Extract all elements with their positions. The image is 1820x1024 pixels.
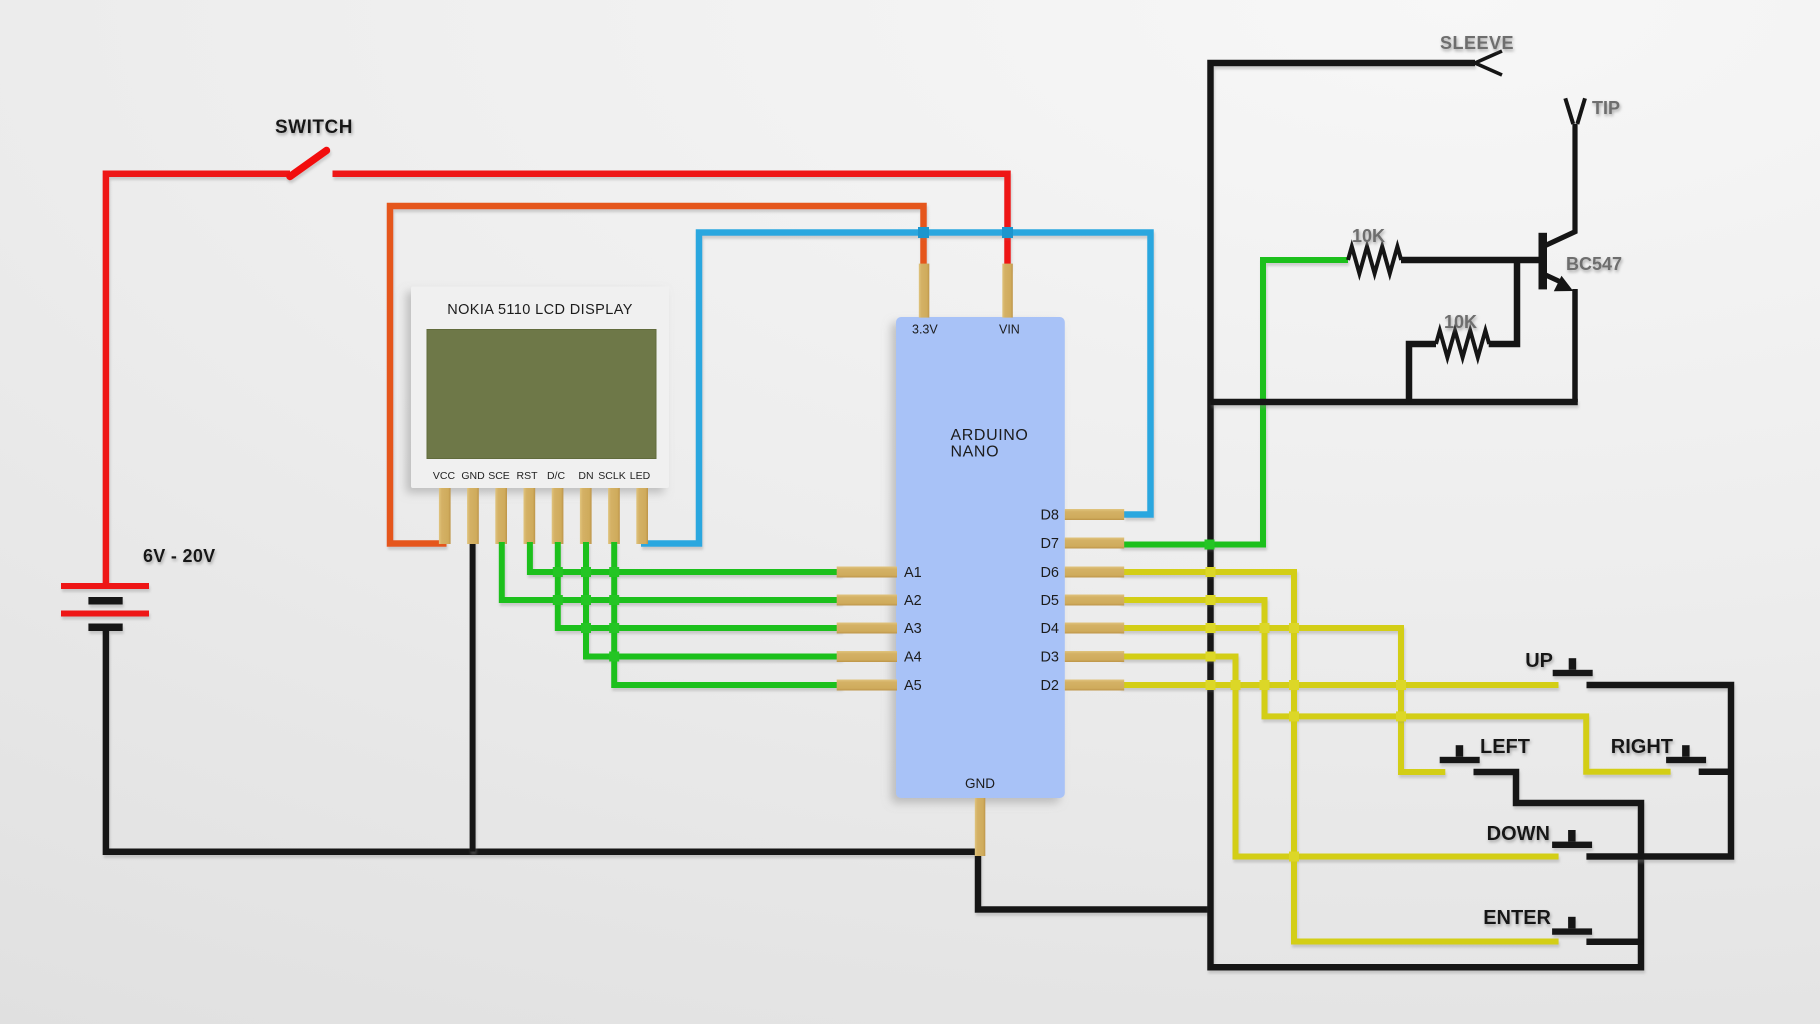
- svg-text:D/C: D/C: [547, 470, 566, 482]
- junction yellow D3 row over main vertical: [1206, 652, 1216, 662]
- nokia display module body: [411, 287, 669, 489]
- svg-text:UP: UP: [1525, 650, 1553, 672]
- svg-text:D8: D8: [1040, 508, 1059, 524]
- svg-text:GND: GND: [461, 470, 485, 482]
- display pins VCC GND SCE RST D/C DN SCLK LED: [439, 488, 648, 544]
- wire yellow D4 to LEFT button: [1120, 628, 1445, 772]
- svg-text:BC547: BC547: [1566, 254, 1622, 274]
- svg-text:A5: A5: [904, 678, 922, 694]
- arduino pins A1-A5: [837, 567, 897, 691]
- junction yellow D6 row over main vertical: [1206, 567, 1216, 577]
- svg-text:LEFT: LEFT: [1480, 736, 1530, 758]
- wire yellow D2 to UP button: [1120, 682, 1559, 688]
- wire black transistor ground rail: [1211, 399, 1578, 406]
- svg-text:D7: D7: [1040, 536, 1059, 552]
- wire black RIGHT contact: [1699, 769, 1731, 776]
- svg-text:10K: 10K: [1352, 226, 1385, 246]
- svg-text:A3: A3: [904, 621, 922, 637]
- pushbutton LEFT symbol: [1440, 745, 1480, 763]
- junction green A2 row x SCLK vertical: [609, 595, 619, 605]
- battery BT1 negative plate: [88, 597, 122, 605]
- wire green DN to A4: [586, 542, 842, 657]
- svg-text:RST: RST: [517, 470, 539, 482]
- transistor Q1 BC547 base bar: [1539, 233, 1548, 290]
- junction green A3 row x SCLK vertical: [609, 623, 619, 633]
- junction yellow D4 row x D5 vertical: [1260, 623, 1270, 633]
- svg-text:A2: A2: [904, 593, 922, 609]
- svg-text:D4: D4: [1040, 621, 1059, 637]
- svg-text:ARDUINO: ARDUINO: [951, 427, 1029, 444]
- junction yellow DOWN row x D6 vertical: [1289, 852, 1299, 862]
- arduino pin GND: [975, 798, 986, 856]
- junction green A1 row x D/C vertical: [553, 567, 563, 577]
- display pin labels: [433, 470, 651, 482]
- arduino nano module body: [896, 317, 1065, 798]
- svg-text:D3: D3: [1040, 650, 1059, 666]
- pushbutton DOWN symbol: [1552, 830, 1592, 848]
- transistor Q1 collector line to TIP: [1545, 124, 1575, 246]
- pushbutton ENTER symbol: [1552, 917, 1592, 935]
- wire orange VCC to 3.3V: [390, 206, 924, 544]
- svg-text:GND: GND: [965, 776, 995, 791]
- junction green A4 row x SCLK vertical: [609, 652, 619, 662]
- wire black main ground net: sleeve rail, main vertical, bottom rail, to LEFT button: [1211, 63, 1642, 967]
- svg-text:DN: DN: [578, 470, 593, 482]
- junction yellow D2 row x D5 vertical: [1260, 680, 1270, 690]
- arduino pin VIN: [1002, 264, 1013, 318]
- svg-text:6V - 20V: 6V - 20V: [143, 546, 215, 566]
- svg-text:D5: D5: [1040, 593, 1059, 609]
- junction yellow D4 row x D6 vertical: [1289, 623, 1299, 633]
- jack tip fork: [1565, 98, 1585, 124]
- wire black battery negative to ground rail: [106, 631, 1211, 910]
- svg-text:TIP: TIP: [1592, 98, 1620, 118]
- resistor R1 10K zigzag: [1348, 247, 1401, 274]
- svg-text:RIGHT: RIGHT: [1611, 736, 1673, 758]
- wire black display GND down: [470, 540, 476, 852]
- arduino pins D8-D2: [1065, 509, 1124, 691]
- junction yellow D5 row over main vertical: [1206, 595, 1216, 605]
- wire black base to R2 right lead: [1489, 260, 1517, 344]
- junction green A2 row x D/C vertical: [553, 595, 563, 605]
- wire green SCLK to A5: [614, 542, 842, 685]
- svg-text:SCLK: SCLK: [598, 470, 625, 482]
- junction yellow D2 row x D3 vertical: [1231, 680, 1241, 690]
- junction yellow D2 row x D4 vertical: [1396, 680, 1406, 690]
- svg-text:NANO: NANO: [951, 444, 1000, 461]
- wire black R2 left lead to ground rail: [1409, 344, 1436, 402]
- wire blue LED to D8: [641, 233, 1151, 544]
- battery BT1 negative plate 2: [88, 624, 122, 632]
- svg-text:VCC: VCC: [433, 470, 456, 482]
- svg-text:DOWN: DOWN: [1487, 823, 1550, 845]
- wire yellow D6 to ENTER button: [1120, 572, 1559, 942]
- junction blue over orange: [918, 227, 929, 238]
- svg-text:D2: D2: [1040, 678, 1059, 694]
- junction yellow D2 row x D6 vertical: [1289, 680, 1299, 690]
- svg-text:A4: A4: [904, 650, 922, 666]
- labels D8-D2: [1040, 508, 1059, 695]
- wire black ENTER contact: [1586, 939, 1644, 946]
- svg-text:SWITCH: SWITCH: [275, 117, 353, 138]
- svg-text:VIN: VIN: [999, 323, 1020, 337]
- svg-text:SCE: SCE: [488, 470, 510, 482]
- junction yellow D4 row over main vertical: [1206, 623, 1216, 633]
- svg-text:D6: D6: [1040, 565, 1059, 581]
- junction green A1 row x SCLK vertical: [609, 567, 619, 577]
- svg-text:LED: LED: [630, 470, 651, 482]
- battery BT1 positive plate: [61, 583, 149, 589]
- svg-text:10K: 10K: [1444, 312, 1477, 332]
- wire green D/C to A3: [558, 542, 842, 628]
- jack sleeve fork: [1475, 51, 1502, 75]
- junction green A1 row x DN vertical: [581, 567, 591, 577]
- transistor Q1 emitter line with arrow: [1545, 275, 1564, 284]
- junction yellow D2 row over main vertical: [1206, 680, 1216, 690]
- wire yellow D5 to RIGHT button: [1120, 600, 1671, 772]
- junction yellow RIGHT row x D6 vertical: [1289, 711, 1299, 721]
- arduino pin 3.3V: [919, 264, 930, 318]
- wire black UP right contact to vertical and DOWN contact: [1586, 685, 1731, 857]
- junction yellow RIGHT row x D4 vertical: [1396, 711, 1406, 721]
- svg-text:A1: A1: [904, 565, 922, 581]
- nokia display screen: [427, 330, 656, 459]
- resistor R2 10K zigzag: [1436, 331, 1489, 358]
- wire green RST to A1: [530, 542, 842, 572]
- pushbutton UP symbol: [1553, 658, 1593, 676]
- svg-text:ENTER: ENTER: [1483, 907, 1551, 929]
- switch SW1 lever: [290, 151, 327, 177]
- wire yellow D3 to DOWN button: [1120, 657, 1559, 857]
- wire green D7 to R1: [1120, 260, 1348, 545]
- wire green SCE to A2: [502, 542, 842, 600]
- junction green over main black vertical: [1205, 540, 1215, 550]
- battery BT1 positive plate 2: [61, 611, 149, 617]
- junction blue over red: [1002, 227, 1013, 238]
- svg-text:3.3V: 3.3V: [912, 323, 938, 337]
- pushbutton RIGHT symbol: [1666, 745, 1706, 763]
- svg-text:SLEEVE: SLEEVE: [1440, 33, 1514, 53]
- labels A1-A5: [904, 565, 922, 694]
- junction green A2 row x DN vertical: [581, 595, 591, 605]
- junction green A3 row x DN vertical: [581, 623, 591, 633]
- svg-text:NOKIA 5110 LCD DISPLAY: NOKIA 5110 LCD DISPLAY: [447, 302, 633, 318]
- wire red battery + switch to VIN: [106, 174, 1008, 583]
- wire black R1 to base: [1401, 257, 1541, 264]
